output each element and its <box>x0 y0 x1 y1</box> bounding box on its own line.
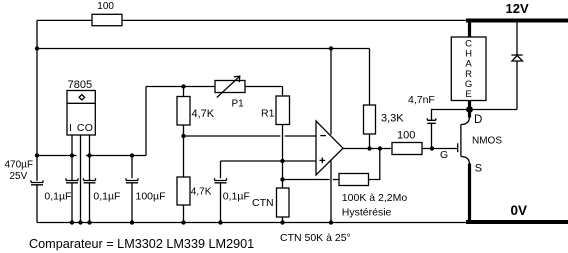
power rail 12V <box>466 19 568 23</box>
wire second rail y48 <box>37 48 370 50</box>
node divider mid <box>181 134 185 138</box>
svg-text:0,1µF: 0,1µF <box>93 190 120 202</box>
svg-text:O: O <box>85 122 93 134</box>
svg-text:12V: 12V <box>506 1 529 16</box>
capacitor C4 100uF <box>131 156 133 179</box>
svg-text:I: I <box>69 122 72 134</box>
svg-text:E: E <box>465 89 471 100</box>
resistor R1 <box>276 96 290 125</box>
wire left vertical lower <box>36 184 38 222</box>
load CHARGE <box>468 20 471 37</box>
wire top rail left segment <box>37 19 92 21</box>
wire left vertical upper <box>36 20 38 180</box>
resistor R4 hysteresis 100K <box>339 174 369 186</box>
wire input rail y155 <box>37 155 77 157</box>
svg-text:C: C <box>77 122 85 134</box>
svg-text:R1: R1 <box>261 107 275 119</box>
svg-text:G: G <box>440 149 448 161</box>
svg-text:4,7nF: 4,7nF <box>408 94 435 106</box>
node hysteresis tap <box>280 177 284 181</box>
svg-text:0V: 0V <box>511 203 528 218</box>
node 100uF rail <box>130 153 134 157</box>
svg-text:CTN: CTN <box>252 197 274 209</box>
node pin O rail <box>87 153 91 157</box>
svg-text:7805: 7805 <box>68 79 92 91</box>
svg-text:NMOS: NMOS <box>472 136 502 147</box>
svg-text:4,7K: 4,7K <box>191 187 212 198</box>
resistor R5 3,3K <box>369 49 371 106</box>
capacitor C1 470uF <box>31 180 43 185</box>
resistor R2 4,7K upper <box>177 97 190 126</box>
wire minus input left <box>184 135 281 137</box>
node plus input <box>280 159 284 163</box>
svg-text:P1: P1 <box>232 99 245 110</box>
wire 7805 pin I <box>71 135 73 181</box>
resistor R3 4,7K lower <box>177 177 190 205</box>
wire ref rail y86 right <box>245 86 283 88</box>
svg-text:Comparateur = LM3302 LM339 LM2: Comparateur = LM3302 LM339 LM2901 <box>29 237 254 251</box>
wire hysteresis left <box>283 179 330 181</box>
node y155 left <box>35 153 39 157</box>
svg-text:0,1µF: 0,1µF <box>44 190 71 202</box>
svg-text:25V: 25V <box>10 171 28 182</box>
wire hysteresis right <box>369 149 380 180</box>
node gate <box>430 146 434 150</box>
node drain <box>466 106 473 113</box>
wire 7805 pin C <box>80 135 82 223</box>
wire top rail right segment to 12V <box>122 19 467 21</box>
wire comparator Vee <box>330 161 332 223</box>
ground bus <box>37 222 468 224</box>
node y48 left <box>35 46 39 50</box>
resistor 100 top <box>92 14 122 25</box>
power rail 0V <box>466 220 568 224</box>
svg-text:4,7K: 4,7K <box>192 108 215 120</box>
svg-text:100K à 2,2Mo: 100K à 2,2Mo <box>342 192 408 204</box>
node pin I rail <box>70 153 74 157</box>
wire 7805 pin O <box>89 135 91 181</box>
capacitor C6 4,7nF <box>432 110 518 149</box>
potentiometer P1 <box>215 81 245 93</box>
wire minus input right <box>285 135 316 137</box>
svg-text:S: S <box>475 162 482 174</box>
node hysteresis output <box>378 146 382 150</box>
wire ref rail y86 left <box>146 86 215 88</box>
capacitor C5 0,1uF <box>220 161 222 178</box>
wire gate <box>422 148 458 150</box>
op-amp U2 comparator <box>316 121 343 175</box>
resistor R6 100 gate <box>392 143 422 155</box>
svg-text:Hystérésie: Hystérésie <box>342 206 392 218</box>
wire 5V riser x146 <box>145 87 147 156</box>
thermistor CTN <box>277 188 290 217</box>
svg-text:100µF: 100µF <box>136 190 166 202</box>
node 3,3K output <box>367 146 371 150</box>
wire 5V rail y155 <box>86 155 146 157</box>
svg-text:100: 100 <box>397 130 415 142</box>
wire R1 top drop <box>282 87 284 97</box>
regulator U1 7805 <box>67 91 95 136</box>
diode D1 <box>516 22 518 55</box>
svg-text:100: 100 <box>97 1 114 12</box>
svg-text:CTN 50K à 25°: CTN 50K à 25° <box>280 232 351 244</box>
wire comparator Vcc <box>330 49 332 135</box>
svg-text:0,1µF: 0,1µF <box>223 190 250 202</box>
node 4,7K top <box>181 84 185 88</box>
node Vcc tap <box>329 46 333 50</box>
ground dots <box>70 220 74 224</box>
svg-text:470µF: 470µF <box>5 159 34 170</box>
transistor Q1 NMOS <box>457 143 459 152</box>
wire plus node rail y161 <box>221 160 317 162</box>
capacitor C2 0,1uF <box>66 178 78 183</box>
wire comparator output <box>343 148 392 150</box>
capacitor C3 0,1uF <box>84 178 96 183</box>
svg-text:D: D <box>474 114 482 126</box>
svg-text:3,3K: 3,3K <box>381 112 404 124</box>
